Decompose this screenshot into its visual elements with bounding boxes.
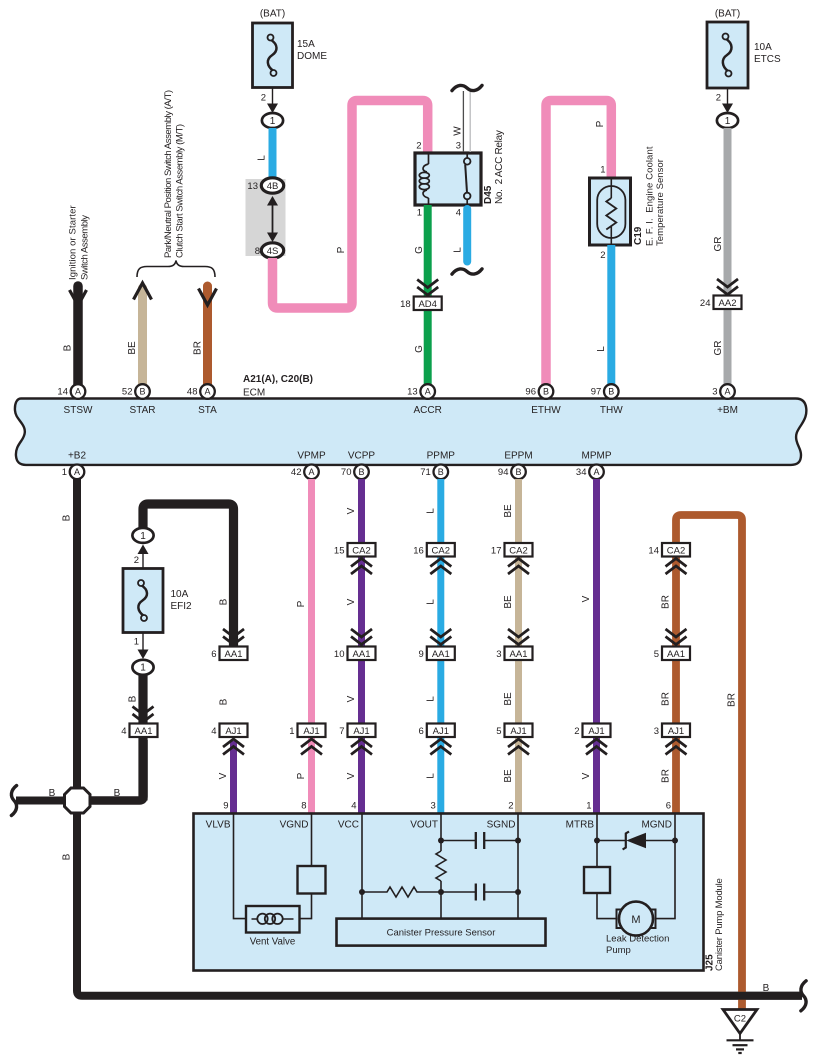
double arrow between 4B and 4S [267, 196, 278, 242]
canister pump module J25 box [194, 814, 726, 972]
svg-text:4B: 4B [267, 181, 279, 192]
wire BR (brown) module MGND via AJ1/AA1/CA2 to ground C2 [648, 515, 742, 1009]
svg-text:3: 3 [654, 726, 659, 737]
svg-text:V: V [581, 772, 592, 779]
svg-text:6: 6 [419, 726, 424, 737]
ECM pin 1 +B2 [62, 451, 87, 480]
connector 4S terminal 8 [255, 243, 284, 258]
svg-text:96: 96 [525, 387, 536, 398]
connector 4B terminal 13 [247, 178, 283, 193]
ECM pin 34 MPMP [576, 451, 612, 480]
svg-text:MPMP: MPMP [582, 451, 612, 462]
svg-text:L: L [425, 773, 436, 779]
svg-text:P: P [336, 246, 347, 253]
svg-text:CA2: CA2 [509, 545, 527, 556]
svg-text:+BM: +BM [717, 405, 738, 416]
svg-text:6: 6 [666, 801, 671, 812]
wire L (blue) ECM PPMP to module VOUT via CA2/AA1/AJ1 [413, 479, 455, 815]
svg-text:CA2: CA2 [352, 545, 370, 556]
ECM pin 3 +BM [712, 384, 738, 416]
ECM pin 14 STSW [57, 384, 93, 416]
wire P (pink) from 4S to ACC relay pin 2 [273, 101, 428, 309]
svg-text:AA1: AA1 [667, 649, 685, 660]
svg-text:VLVB: VLVB [206, 820, 231, 831]
svg-text:14: 14 [648, 545, 659, 556]
internal capacitor VOUT-SGND lower [441, 884, 518, 901]
vent valve [246, 906, 300, 948]
wire P (pink) ECM VPMP to module VGND, connector AJ1 terminal 1 [289, 479, 325, 815]
module internal lead SGND [515, 814, 521, 919]
svg-text:Leak Detection: Leak Detection [606, 934, 669, 945]
svg-text:18: 18 [400, 299, 411, 310]
svg-text:(BAT): (BAT) [715, 9, 740, 20]
svg-text:3: 3 [431, 801, 436, 812]
svg-text:BE: BE [503, 692, 514, 706]
svg-text:SGND: SGND [487, 820, 516, 831]
canister pressure sensor box [337, 919, 546, 946]
wire GR (gray) ETCS to ECM +BM [713, 128, 728, 388]
svg-text:7: 7 [339, 726, 344, 737]
svg-text:W: W [453, 126, 464, 136]
module internal lead VGND with series box to vent valve [298, 814, 326, 919]
svg-text:D45: D45 [483, 185, 494, 204]
svg-text:1: 1 [725, 116, 731, 127]
svg-text:AJ1: AJ1 [588, 726, 604, 737]
svg-text:94: 94 [498, 467, 509, 478]
connector junction 1 (top of EFI2) [132, 528, 153, 543]
svg-text:Temperature Sensor: Temperature Sensor [655, 159, 666, 246]
svg-text:ACCR: ACCR [414, 405, 442, 416]
ECM pin 42 VPMP [291, 451, 326, 480]
svg-text:3: 3 [456, 141, 461, 152]
wire L (blue) relay pin 4 to break [452, 208, 482, 275]
svg-text:B: B [49, 788, 56, 799]
svg-text:L: L [596, 346, 607, 352]
svg-text:AJ1: AJ1 [353, 726, 369, 737]
svg-text:17: 17 [491, 545, 502, 556]
svg-text:CA2: CA2 [667, 545, 685, 556]
svg-text:Park/Neutral Position Switch A: Park/Neutral Position Switch Assembly (A… [163, 90, 174, 258]
connector AD4 terminal 18 [400, 280, 442, 311]
junction octagon [65, 788, 91, 813]
svg-text:97: 97 [591, 387, 602, 398]
svg-text:1: 1 [62, 467, 67, 478]
svg-text:34: 34 [576, 467, 587, 478]
svg-text:1: 1 [140, 663, 146, 674]
svg-text:M: M [631, 914, 640, 926]
svg-text:A: A [204, 387, 210, 397]
connector AA1 terminal 6 and AJ1 terminal 4 on VLVB branch [211, 629, 247, 755]
svg-text:AA1: AA1 [353, 649, 371, 660]
svg-text:AA1: AA1 [135, 726, 153, 737]
svg-text:1: 1 [417, 208, 422, 219]
svg-text:1: 1 [140, 531, 146, 542]
module internal lead VLVB to vent valve [234, 814, 247, 919]
svg-text:B: B [438, 467, 444, 477]
connector junction 1 (DOME) [262, 113, 283, 128]
ECM pin 48 STA [187, 384, 217, 416]
svg-text:24: 24 [700, 298, 711, 309]
internal capacitor VOUT-SGND upper [441, 832, 518, 849]
wire L (blue) C19 pin 2 to ECM THW [596, 245, 611, 388]
svg-text:L: L [425, 508, 436, 514]
svg-text:C19: C19 [633, 226, 644, 245]
svg-text:VPMP: VPMP [297, 451, 326, 462]
svg-text:V: V [581, 595, 592, 602]
svg-text:B: B [139, 387, 145, 397]
svg-text:71: 71 [420, 467, 431, 478]
svg-text:BE: BE [503, 595, 514, 609]
svg-text:8: 8 [255, 246, 260, 257]
svg-text:BR: BR [661, 692, 672, 706]
svg-text:P: P [595, 120, 606, 127]
svg-text:14: 14 [57, 387, 68, 398]
svg-text:2: 2 [134, 555, 139, 566]
svg-text:B: B [62, 514, 73, 521]
svg-text:GR: GR [713, 341, 724, 356]
ECM block A21(A), C20(B) [15, 374, 806, 465]
svg-text:A: A [724, 387, 730, 397]
svg-text:VCPP: VCPP [348, 451, 376, 462]
svg-text:Vent Valve: Vent Valve [250, 937, 296, 948]
svg-text:Switch Assembly: Switch Assembly [80, 215, 91, 280]
svg-text:4S: 4S [267, 246, 279, 257]
wire V (violet) ECM VCPP to module VCC via CA2/AA1/AJ1 [334, 479, 376, 815]
wire B (black) EFI2 branch from connector 1 over to VLVB column [143, 504, 234, 648]
arrow into EFI2 fuse pin 2 [134, 545, 149, 569]
svg-text:2: 2 [716, 93, 721, 104]
ECM pin 71 PPMP [420, 451, 455, 480]
ECM pin 97 THW [591, 384, 624, 416]
wire B (black) EFI2 to connector AA1 terminal 4 [121, 675, 157, 801]
ECM pin 96 ETHW [525, 384, 561, 416]
svg-text:10: 10 [334, 649, 345, 660]
ECM pin 70 VCPP [341, 451, 376, 480]
svg-text:B: B [128, 695, 139, 702]
svg-text:6: 6 [211, 649, 216, 660]
svg-text:AJ1: AJ1 [225, 726, 241, 737]
wire G (green) relay pin 1 to ECM ACCR [414, 205, 428, 388]
svg-text:AJ1: AJ1 [303, 726, 319, 737]
ground C2 [723, 1010, 757, 1054]
svg-text:BE: BE [503, 769, 514, 783]
svg-text:5: 5 [496, 726, 501, 737]
svg-text:16: 16 [413, 545, 424, 556]
svg-text:V: V [346, 507, 357, 514]
svg-text:BR: BR [661, 769, 672, 783]
wire DOME fuse pin 2 to connector 1 [261, 88, 278, 114]
wire B (black) ignition switch to ECM STSW [63, 205, 91, 388]
svg-text:E. F. I. Engine Coolant: E. F. I. Engine Coolant [645, 146, 656, 246]
svg-text:15: 15 [334, 545, 345, 556]
svg-text:ETHW: ETHW [531, 405, 561, 416]
svg-text:L: L [257, 155, 268, 161]
svg-text:5: 5 [654, 649, 659, 660]
svg-text:AJ1: AJ1 [510, 726, 526, 737]
wire L (blue) DOME to 4B [257, 128, 273, 181]
svg-text:52: 52 [122, 387, 133, 398]
svg-text:8: 8 [301, 801, 306, 812]
svg-text:VGND: VGND [280, 820, 309, 831]
module internal lead VCC [359, 814, 365, 919]
svg-text:2: 2 [508, 801, 513, 812]
svg-text:V: V [346, 695, 357, 702]
svg-text:A: A [593, 467, 599, 477]
wire EFI2 fuse pin 1 to connector 1 [134, 633, 149, 660]
wire ETCS fuse pin 2 to connector 1 [716, 88, 733, 113]
svg-text:B: B [219, 698, 230, 705]
svg-text:C2: C2 [734, 1014, 746, 1025]
fuse 10A ETCS (BAT) [707, 9, 781, 89]
svg-text:70: 70 [341, 467, 352, 478]
svg-text:4: 4 [351, 801, 356, 812]
svg-text:2: 2 [416, 141, 421, 152]
svg-text:Canister Pump Module: Canister Pump Module [714, 878, 725, 971]
svg-text:L: L [425, 599, 436, 605]
wire P (pink) from ECM ETHW to coolant sensor C19 pin 1 [546, 101, 611, 389]
svg-text:AJ1: AJ1 [433, 726, 449, 737]
wire V (violet) ECM MPMP to module MTRB via AJ1 terminal 2 [574, 479, 610, 815]
svg-text:4: 4 [456, 208, 461, 219]
svg-text:2: 2 [574, 726, 579, 737]
svg-text:3: 3 [496, 649, 501, 660]
svg-text:10A: 10A [754, 42, 772, 53]
connector junction 1 (ETCS) [717, 113, 738, 128]
wire W (white) relay pin 3 to break [452, 85, 482, 152]
wire B (black) ECM +B2 down left side to ground rail [62, 479, 807, 1011]
wire BR (brown) clutch start switch to ECM STA [193, 286, 217, 388]
wire BE (beige) park/neutral switch to ECM STAR [127, 283, 152, 388]
svg-text:B: B [543, 387, 549, 397]
svg-text:BE: BE [503, 504, 514, 518]
svg-text:42: 42 [291, 467, 302, 478]
svg-text:9: 9 [419, 649, 424, 660]
svg-text:ETCS: ETCS [754, 54, 781, 65]
svg-text:13: 13 [247, 181, 258, 192]
svg-text:B: B [114, 788, 121, 799]
module pin names [206, 820, 672, 831]
svg-text:L: L [453, 247, 464, 253]
svg-text:V: V [346, 772, 357, 779]
svg-text:THW: THW [600, 405, 623, 416]
internal resistor VCC to VOUT [362, 887, 441, 897]
svg-text:CA2: CA2 [432, 545, 450, 556]
svg-text:1: 1 [289, 726, 294, 737]
svg-text:No. 2 ACC Relay: No. 2 ACC Relay [494, 130, 505, 204]
fuse 15A DOME (BAT) [253, 9, 328, 88]
svg-text:MGND: MGND [641, 820, 672, 831]
connector AA2 terminal 24 [700, 279, 742, 309]
svg-text:1: 1 [586, 801, 591, 812]
svg-text:STA: STA [198, 405, 217, 416]
svg-text:AD4: AD4 [418, 299, 436, 310]
coolant temp sensor C19 [590, 146, 667, 261]
svg-text:V: V [346, 598, 357, 605]
module internal lead MGND to pump motor [655, 814, 678, 919]
module internal lead MTRB with series box to pump motor [584, 814, 617, 919]
svg-text:13: 13 [407, 387, 418, 398]
svg-text:STAR: STAR [130, 405, 156, 416]
svg-text:V: V [218, 772, 229, 779]
svg-text:A: A [74, 467, 80, 477]
svg-text:(BAT): (BAT) [260, 9, 285, 20]
svg-text:EPPM: EPPM [504, 451, 532, 462]
svg-text:+B2: +B2 [68, 451, 87, 462]
svg-text:AA1: AA1 [225, 649, 243, 660]
svg-text:B: B [62, 853, 73, 860]
svg-text:A: A [308, 467, 314, 477]
svg-text:B: B [63, 344, 74, 351]
svg-text:B: B [608, 387, 614, 397]
svg-text:Canister Pressure Sensor: Canister Pressure Sensor [387, 928, 496, 939]
svg-text:9: 9 [223, 801, 228, 812]
svg-text:STSW: STSW [64, 405, 93, 416]
relay D45 No.2 ACC Relay [415, 130, 505, 205]
svg-text:A: A [75, 387, 81, 397]
leak detection pump motor [606, 902, 669, 956]
svg-text:48: 48 [187, 387, 198, 398]
svg-text:Clutch Start Switch Assembly (: Clutch Start Switch Assembly (M/T) [175, 124, 186, 258]
svg-text:4: 4 [211, 726, 216, 737]
svg-text:BR: BR [193, 341, 204, 355]
svg-text:BR: BR [727, 693, 738, 707]
park/neutral switch label and brace [137, 90, 215, 277]
ECM pin 94 EPPM [498, 451, 533, 480]
wire BE (beige) ECM EPPM to module SGND via CA2/AA1/AJ1 [491, 479, 533, 815]
wire V (violet) connector AJ1 terminal 4 to module VLVB [218, 741, 234, 815]
svg-text:15A: 15A [297, 39, 315, 50]
wire B (black) octagon left arm to break [11, 786, 70, 816]
svg-text:1: 1 [600, 165, 605, 176]
svg-text:A21(A), C20(B): A21(A), C20(B) [243, 374, 313, 385]
svg-text:Ignition or Starter: Ignition or Starter [68, 205, 79, 280]
ECM pin 52 STAR [122, 384, 156, 416]
svg-text:G: G [414, 345, 425, 353]
module internal lead VOUT with series resistor [436, 814, 446, 919]
svg-text:ECM: ECM [243, 388, 265, 399]
svg-text:2: 2 [261, 93, 266, 104]
svg-text:10A: 10A [171, 589, 189, 600]
svg-text:P: P [296, 772, 307, 779]
svg-text:DOME: DOME [297, 51, 327, 62]
svg-text:AA1: AA1 [432, 649, 450, 660]
svg-text:AA2: AA2 [719, 298, 737, 309]
connector junction 1 (bottom of EFI2) [132, 660, 153, 675]
svg-text:L: L [425, 696, 436, 702]
redraw ground rail over brown wire [620, 992, 802, 1000]
svg-text:VOUT: VOUT [410, 820, 438, 831]
svg-text:P: P [296, 600, 307, 607]
svg-text:B: B [515, 467, 521, 477]
svg-text:1: 1 [134, 637, 139, 648]
shielded junction block 4B/4S [246, 179, 286, 256]
svg-text:A: A [425, 387, 431, 397]
svg-text:PPMP: PPMP [427, 451, 456, 462]
wire B (black) octagon right arm up to connector AA1 [77, 740, 144, 801]
svg-text:AA1: AA1 [510, 649, 528, 660]
svg-text:B: B [358, 467, 364, 477]
svg-text:2: 2 [600, 250, 605, 261]
svg-text:1: 1 [270, 116, 276, 127]
svg-text:Pump: Pump [606, 945, 631, 956]
fuse 10A EFI2 [123, 569, 192, 633]
svg-text:MTRB: MTRB [566, 820, 595, 831]
svg-text:VCC: VCC [338, 820, 359, 831]
svg-text:B: B [219, 598, 230, 605]
svg-text:GR: GR [713, 237, 724, 252]
ECM pin 13 ACCR [407, 384, 442, 416]
internal zener diode MTRB-MGND [597, 832, 675, 850]
svg-text:BR: BR [661, 595, 672, 609]
svg-text:G: G [414, 246, 425, 254]
svg-text:4: 4 [121, 726, 126, 737]
svg-text:3: 3 [712, 387, 717, 398]
svg-text:EFI2: EFI2 [171, 601, 193, 612]
svg-text:BE: BE [127, 341, 138, 355]
svg-text:AJ1: AJ1 [668, 726, 684, 737]
